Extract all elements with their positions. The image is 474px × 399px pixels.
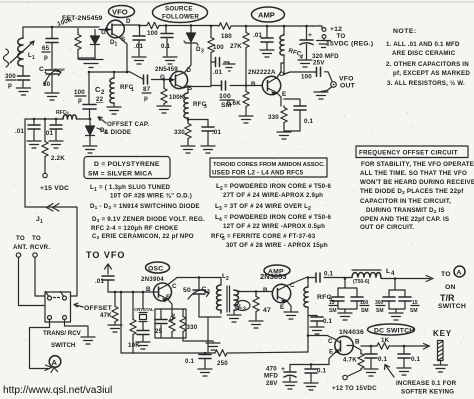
node bus tap [120,291,123,294]
capacitor pair B (300/15 SM) [375,279,419,315]
svg-text:2: 2 [226,276,229,282]
svg-text:VFO: VFO [112,8,128,17]
svg-text:USED FOR L2 - L4 AND RFC5: USED FOR L2 - L4 AND RFC5 [212,170,304,177]
svg-text:1N4036: 1N4036 [339,329,364,336]
svg-text:DC SWITCH: DC SWITCH [374,328,414,335]
diode D2 [86,119,108,145]
ground pair B [389,313,403,320]
ground feed1 [27,141,41,148]
node 0.1 [165,24,168,27]
terminal VFO OUT [331,76,356,90]
ground 0.1 bus [198,369,212,376]
label oval VFO [109,6,135,18]
ground feed2 [49,141,63,148]
svg-text:100: 100 [301,74,312,81]
node feed c [55,118,58,121]
resistor 180 rail [218,23,233,40]
svg-text:TO: TO [16,235,25,242]
transistor Q3 2N2222A [251,63,286,106]
svg-text:SOFTER KEYING: SOFTER KEYING [401,389,454,396]
svg-text:28V: 28V [266,380,278,387]
capacitor 320MFD 25V electrolytic [300,26,339,67]
svg-text:TO VFO: TO VFO [86,250,125,260]
wire divider node [210,54,212,86]
svg-text:NOTE:: NOTE: [393,28,417,35]
svg-text:(T50-6): (T50-6) [353,279,370,285]
svg-text:.01: .01 [212,129,222,136]
antenna squiggle far left [4,49,9,67]
ground key a [364,369,378,376]
svg-text:1: 1 [32,55,35,61]
wire J1 line [25,207,77,296]
capacitor 0.1 key b [398,346,421,367]
svg-text:B: B [251,81,256,88]
node keyer [307,334,310,337]
svg-text:100: 100 [74,89,85,96]
svg-text:http://www.qsl.net/va3iul: http://www.qsl.net/va3iul [3,385,112,396]
svg-text:RCVR.: RCVR. [30,244,50,251]
arrowhead to A [45,365,52,371]
terminal +15VDC [40,173,69,192]
svg-text:TOROID CORES FROM AMIDON ASS: TOROID CORES FROM AMIDON ASSOC. [213,162,325,168]
capacitor .01 feed 1 [15,119,40,140]
svg-text:2: 2 [308,206,311,212]
choke RFC5 [304,278,333,353]
svg-text:2.2K: 2.2K [51,155,65,162]
wire key line [361,345,427,347]
ground under 100K [157,106,171,113]
svg-text:10T OF #28 WIRE ⅜" O.D.): 10T OF #28 WIRE ⅜" O.D.) [110,193,192,200]
svg-text:D3 = 9.1V ZENER DIODE VOLT.: D3 = 9.1V ZENER DIODE VOLT. REG. [92,216,205,224]
svg-text:330: 330 [187,324,198,331]
crystal XTAL [134,292,154,341]
svg-text:3: 3 [204,104,207,110]
capacitor .01 amp rail [253,26,273,49]
wire osc base line [108,291,159,293]
choke RFC2 inline [56,110,77,119]
terminal +12 keyer [332,375,377,392]
svg-text:D: D [187,67,192,74]
svg-text:.01: .01 [134,43,144,50]
svg-text:1: 1 [115,42,118,48]
svg-text:+12 TO 15VDC: +12 TO 15VDC [332,385,377,392]
terminal +12 supply [322,26,345,40]
svg-text:3: 3 [243,307,246,313]
capacitor .01 drain bypass [133,26,145,57]
JFET Q2 2N5459 follower [160,67,192,92]
svg-text:SWITCH: SWITCH [438,303,466,310]
svg-text:50: 50 [183,287,191,294]
node 10K tap [132,291,135,294]
svg-text:TRANS/ RCV: TRANS/ RCV [43,330,82,337]
capacitor 300p [5,66,30,89]
svg-text:p: p [8,82,12,89]
terminal ANT [16,253,20,257]
svg-text:WON'T BE HEARD DURING RECEIVE: WON'T BE HEARD DURING RECEIVE [360,179,474,186]
node offset [89,118,92,121]
arrowhead TO A [426,276,433,282]
svg-text:50: 50 [43,81,51,88]
shared ground 100K/D1 [78,56,103,68]
svg-text:100: 100 [147,30,158,37]
wire left bottom bus [121,292,198,353]
ground 320MFD [298,60,312,67]
ground key b [397,368,411,375]
svg-text:27T OF # 24 WIRE-APROX 2.9μh: 27T OF # 24 WIRE-APROX 2.9μh [223,192,323,199]
ground pair A [338,313,352,320]
svg-text:SM: SM [376,308,384,314]
svg-text:.01: .01 [213,69,223,76]
svg-text:ON: ON [445,284,456,291]
svg-text:E: E [282,91,286,98]
capacitor C2 22 (offset) [83,72,105,118]
svg-text:.01: .01 [253,32,263,39]
svg-text:27K: 27K [230,43,242,50]
svg-text:SOURCE: SOURCE [165,6,193,13]
transformer L2/L3 [217,273,241,314]
legend L1 [90,184,192,200]
ground 47K [108,325,122,332]
ground under 330 [181,146,195,153]
svg-text:A: A [457,270,462,277]
svg-text:L: L [386,268,390,275]
resistor 100 (divider) [208,26,224,54]
ground under D2 [83,146,97,153]
node 47K tap [114,291,117,294]
svg-text:ARE DISC CERAMIC: ARE DISC CERAMIC [392,50,456,57]
label OFFSET CAP & DIODE w/ arrows [97,117,149,136]
wire bus right [198,352,308,353]
ground under 0.1 [163,57,177,64]
svg-text:47: 47 [263,307,271,314]
svg-text:B: B [355,339,360,346]
legend L3 [215,203,311,212]
choke RFC1 [110,72,134,106]
svg-text:MFD: MFD [264,373,278,380]
wire ANT down [19,257,46,305]
svg-text:2N2222A: 2N2222A [248,69,276,76]
node key b [403,345,406,348]
label INCREASE 0.1 [385,365,457,396]
terminal RCVR [33,253,37,257]
ground .01 amp [260,50,274,57]
wire drain to rail right [124,24,140,26]
node key a [370,345,373,348]
choke RFC4 [280,26,304,63]
wire group to ground [183,338,213,342]
ground under .01 follower [201,146,215,153]
svg-text:47K: 47K [100,312,112,319]
svg-text:65: 65 [42,45,50,52]
capacitor 100 SM coupling [211,81,246,109]
capacitor 0.1 key a [365,346,388,368]
svg-text:0.1: 0.1 [411,356,421,363]
svg-text:10K: 10K [128,342,140,349]
svg-text:FOLLOWER: FOLLOWER [162,14,199,21]
label L3 oval [235,301,250,313]
svg-text:300: 300 [5,73,16,80]
ground under 5.6K [239,116,253,123]
label TRANS/RCV SWITCH [43,330,82,349]
choke RFC3 [184,87,207,119]
legend box D/SM [84,157,170,179]
svg-text:FOR STABILITY, THE VFO OPERATE: FOR STABILITY, THE VFO OPERATES [361,161,474,168]
svg-text:SM: SM [361,308,369,314]
resistor 4.7K [343,352,364,370]
svg-text:OFFSET: OFFSET [84,305,113,312]
svg-text:E: E [329,349,333,356]
svg-text:= POWDERED IRON CORE # T50-6: = POWDERED IRON CORE # T50-6 [224,214,332,221]
node 27K base [245,84,248,87]
svg-text:3: 3 [201,49,204,55]
ground chassis terminal [317,41,331,48]
node RFC3 [187,85,190,88]
svg-text:C2 ERIE CERAMICON, 22 pf NPO: C2 ERIE CERAMICON, 22 pf NPO [92,233,194,241]
svg-text:INCREASE 0.1 FOR: INCREASE 0.1 FOR [396,380,457,387]
svg-text:DURING TRANSMIT D2 IS: DURING TRANSMIT D2 IS [366,207,445,215]
wire L3 to base 2N3053 [240,291,272,293]
label TO ANT [13,235,28,251]
svg-text:C: C [328,338,333,345]
svg-text:SM = SILVER MICA: SM = SILVER MICA [88,171,152,178]
svg-text:330: 330 [268,114,279,121]
trimmer capacitor C1 50 [39,66,65,92]
ground under 300p [17,88,31,95]
capacitor pair A (15/100 SM) [329,279,369,315]
label OFFSET w/ arrow [74,303,113,312]
svg-text:THE DIODE D2 PLACES THE 22pf: THE DIODE D2 PLACES THE 22pf [360,188,464,196]
svg-text:KEY: KEY [433,329,452,338]
capacitor 470MFD electrolytic [264,366,296,388]
svg-text:5.6K: 5.6K [227,100,241,107]
legend L2 [216,183,332,199]
svg-text:1. ALL .01 AND 0.1 MFD: 1. ALL .01 AND 0.1 MFD [386,41,460,48]
svg-text:C: C [172,283,177,290]
capacitor 0.1 supply [305,365,327,383]
svg-text:30T OF # 28 WIRE - APROX 15μh: 30T OF # 28 WIRE - APROX 15μh [226,242,328,249]
svg-text:2. OTHER CAPACITORS IN: 2. OTHER CAPACITORS IN [386,61,469,68]
svg-text:& DIODE: & DIODE [104,129,131,136]
svg-text:SWITCH: SWITCH [51,342,76,349]
svg-text:0.1: 0.1 [185,358,195,365]
capacitor .01 feed 2 [44,119,62,140]
wire L4 to arrow [381,278,430,280]
svg-text:100K: 100K [56,16,73,28]
node collector [283,73,286,76]
svg-text:FREQUENCY OFFSET CIRCUIT: FREQUENCY OFFSET CIRCUIT [359,150,458,157]
emitter RC group [155,309,198,338]
wire source down [120,38,127,72]
svg-text:+: + [308,32,312,39]
resistor 330 emitter [268,106,287,131]
svg-text:25V: 25V [313,60,325,67]
svg-text:100: 100 [213,44,224,51]
node crystal tap [142,291,145,294]
ground RC group [206,343,220,350]
node Q5 collector [307,276,310,279]
svg-text:= POWDERED IRON CORE # T50-6: = POWDERED IRON CORE # T50-6 [224,183,332,190]
svg-text:2N3053: 2N3053 [260,272,287,281]
wire emitter supply [290,365,329,372]
svg-text:VFO: VFO [339,76,354,83]
node res100v [210,25,213,28]
ground key [434,365,448,372]
svg-text:OFFSET CAP.: OFFSET CAP. [107,121,149,128]
svg-text:RFC 2-4 = 120μh RF CHOKE: RFC 2-4 = 120μh RF CHOKE [91,225,178,232]
node RFC1 top [113,71,116,74]
svg-text:D = POLYSTYRENE: D = POLYSTYRENE [94,161,160,168]
ground 0.1 RFC5 [310,327,324,334]
svg-text:3: 3 [219,206,222,212]
label TO A ON T/R SWITCH [438,266,466,310]
resistor 10K [128,292,140,353]
node 27K rail [245,25,248,28]
ground crystal [136,342,150,349]
svg-text:330: 330 [174,129,185,136]
svg-text:OUT OF CIRCUIT.: OUT OF CIRCUIT. [360,224,414,231]
svg-text:TO: TO [337,33,346,40]
svg-text:= FERRITE CORE # FT-37-63: = FERRITE CORE # FT-37-63 [227,233,316,240]
svg-text:250: 250 [217,360,228,367]
transistor Q6 1N4036 (PNP keyer) [308,336,361,365]
svg-text:SM: SM [329,308,337,314]
label oval SOURCE FOLLOWER [153,3,208,23]
resistor 330 follower [174,118,191,145]
inductor L4 [352,268,395,285]
zener D1 [91,30,118,57]
svg-text:OPEN AND THE 22pf CAP. IS: OPEN AND THE 22pf CAP. IS [360,216,449,223]
wire rail to amp supply [140,25,147,27]
svg-text:0.1: 0.1 [304,118,314,125]
svg-text:E: E [280,304,284,311]
svg-text:B: B [146,286,151,293]
svg-text:AMP: AMP [258,11,275,20]
svg-text:1: 1 [40,219,43,225]
resistor 1K [376,337,391,349]
transistor Q4 2N3904 [146,278,177,310]
svg-text:+12: +12 [330,26,342,33]
capacitor .01 keyline [95,276,114,292]
svg-text:100K: 100K [169,94,185,101]
svg-text:4.7K: 4.7K [343,357,357,364]
svg-text:1K: 1K [381,337,390,344]
legend RFC5 [211,233,328,249]
svg-text:pf, EXCEPT AS MARKED: pf, EXCEPT AS MARKED [393,70,470,77]
ground relay [81,337,95,344]
svg-text:p: p [144,95,148,102]
svg-text:.01: .01 [15,128,25,135]
ground emitter [277,132,291,139]
svg-text:100: 100 [219,93,231,100]
svg-text:p: p [78,97,82,104]
svg-text:A: A [52,358,58,367]
node trimmer tap [198,276,201,279]
capacitor 100 out coupling [284,67,332,81]
wire collector top [177,277,221,279]
svg-text:22: 22 [96,96,104,103]
svg-text:2: 2 [101,89,105,96]
wire 4.7K to +12 terminal [348,370,361,376]
ground under .01 [132,57,146,64]
transistor Q5 2N3053 [263,277,308,311]
inductor L1 (variable, slug tuned) [10,27,35,66]
svg-text:D: D [126,18,131,25]
wire rail [162,25,218,27]
ground under RFC1 [107,107,121,114]
capacitor 0.1 bypass [161,26,173,57]
svg-text:p: p [44,54,48,61]
ground VFO OUT [314,87,332,99]
svg-text:C: C [290,282,295,289]
freq offset title box [356,146,468,158]
capacitor .01 tap w/ ground [211,58,235,77]
svg-text:TO: TO [441,271,451,278]
wire +15 feed [25,118,90,120]
svg-text:SM: SM [410,308,418,314]
svg-text:= ( 1.3μh SLUG TUNED: = ( 1.3μh SLUG TUNED [99,184,171,191]
node 0.1 supply [310,363,313,366]
svg-text:4: 4 [219,217,222,223]
resistor 5.6K [227,86,249,116]
ground 0.1 supply [304,383,318,390]
resistor 47 [253,292,271,321]
svg-text:5: 5 [329,296,333,303]
svg-text:1: 1 [131,87,134,93]
capacitor 65p [42,27,58,69]
key jack symbol [438,341,444,365]
node D3 [190,24,193,27]
label oval AMP [252,7,285,22]
svg-text:+15 VDC: +15 VDC [40,185,69,192]
node 47 tap [255,290,258,293]
svg-text:CRYSTAL: CRYSTAL [134,307,154,312]
node 320 rail [305,25,308,28]
ground 470MFD [283,382,297,389]
svg-text:0.1: 0.1 [378,356,388,363]
svg-text:0.1: 0.1 [161,43,171,50]
relay box TRANS/RCV [45,292,71,323]
wire collector node [281,63,284,74]
svg-text:2N3904: 2N3904 [141,276,164,283]
svg-text:B: B [263,287,268,294]
svg-text:0.1: 0.1 [317,368,327,375]
label oval DC SWITCH [368,324,415,335]
svg-text:25: 25 [155,328,163,335]
svg-text:87: 87 [143,86,151,93]
svg-text:OUT: OUT [340,83,356,90]
svg-text:T/R: T/R [440,293,455,303]
toroid box [210,158,327,177]
svg-text:0.1: 0.1 [324,271,334,278]
svg-text:TO: TO [32,235,41,242]
resistor 100K follower [161,80,185,106]
wire source-follower node y72 [89,72,143,80]
capacitor 87p coupling [142,75,170,102]
node rail-L1 [51,26,54,29]
node filter a [344,277,347,280]
wire D3 to follower drain [185,44,192,73]
node .01 amp [266,25,269,28]
node source join [126,71,129,74]
svg-text:5: 5 [222,236,225,242]
svg-text:E: E [166,294,170,301]
trimmer C3 50 [183,278,221,353]
wire source to output node [184,87,212,89]
svg-text:4: 4 [391,270,395,277]
svg-text:ALL THE TIME. SO THAT THE VFO: ALL THE TIME. SO THAT THE VFO [360,170,467,177]
wire left bus down [24,119,26,207]
resistor 250 bus [214,350,229,367]
